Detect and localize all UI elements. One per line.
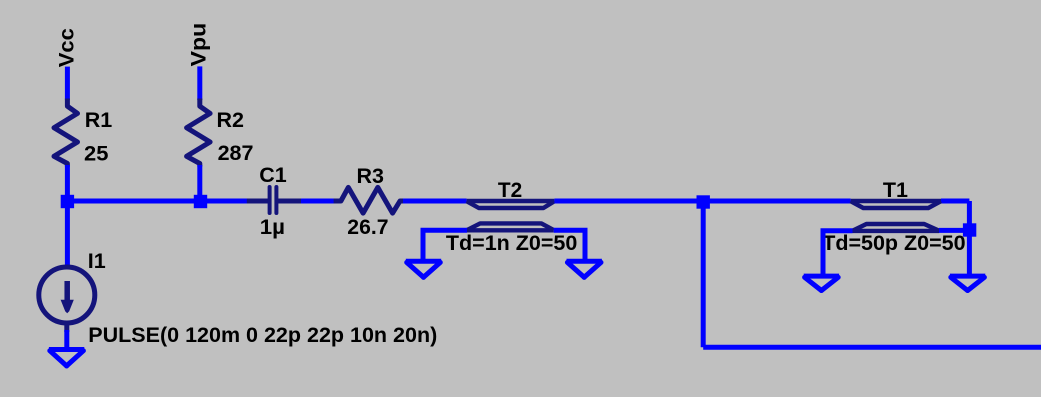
svg-text:T2: T2 xyxy=(498,178,522,202)
node junction J4 xyxy=(963,223,976,236)
svg-text:25: 25 xyxy=(84,141,108,165)
svg-text:R1: R1 xyxy=(85,108,113,132)
label R2 xyxy=(217,108,245,132)
value 287 xyxy=(218,141,254,165)
transmission line T1 xyxy=(851,201,941,231)
wire T1 lower right xyxy=(939,228,964,233)
ground T2 right xyxy=(567,261,602,277)
wire T2 lower right xyxy=(554,230,585,259)
value 25 xyxy=(84,141,108,165)
svg-text:26.7: 26.7 xyxy=(347,215,388,239)
wire T1 to corner xyxy=(941,199,969,204)
value PULSE xyxy=(88,323,437,347)
wire right vertical xyxy=(967,201,972,274)
svg-text:R2: R2 xyxy=(217,108,245,132)
value Td=50p Z0=50 xyxy=(822,231,965,255)
node junction J3 xyxy=(697,195,710,208)
wire T1 lower left xyxy=(823,231,853,274)
svg-text:C1: C1 xyxy=(259,163,287,187)
value 26.7 xyxy=(347,215,388,239)
value Td=1n Z0=50 xyxy=(446,231,577,255)
wire Vpu stub xyxy=(197,66,202,100)
wire R1 to node xyxy=(65,165,70,201)
current source I1 xyxy=(39,267,95,332)
wire I1 to ground xyxy=(64,330,69,350)
svg-text:PULSE(0 120m 0 22p 22p 10n 20n: PULSE(0 120m 0 22p 22p 10n 20n) xyxy=(88,323,437,347)
wire C1 to R3 xyxy=(301,199,334,204)
svg-text:1µ: 1µ xyxy=(260,215,285,239)
node junction J1 xyxy=(61,195,74,208)
label R1 xyxy=(85,108,113,132)
wire T2 lower left xyxy=(423,230,467,259)
svg-text:Td=50p Z0=50: Td=50p Z0=50 xyxy=(822,231,965,255)
svg-text:287: 287 xyxy=(218,141,254,165)
net label Vpu xyxy=(187,23,211,67)
svg-text:T1: T1 xyxy=(883,178,908,202)
wire main bus T2 to corner xyxy=(554,199,850,204)
wire Vcc stub xyxy=(65,67,70,100)
wire J3 down xyxy=(701,202,706,347)
wire node J1 down to I1 xyxy=(65,201,70,266)
svg-text:R3: R3 xyxy=(357,164,385,188)
resistor R2 xyxy=(187,99,211,167)
capacitor C1 xyxy=(247,187,301,213)
label T2 xyxy=(498,178,522,202)
svg-text:I1: I1 xyxy=(88,249,106,273)
svg-text:Vpu: Vpu xyxy=(187,23,211,67)
ground T1 right xyxy=(950,276,985,290)
ground T2 left xyxy=(406,261,441,277)
ground under I1 xyxy=(49,350,84,366)
label I1 xyxy=(88,249,106,273)
resistor R1 xyxy=(54,99,78,167)
transmission line T2 xyxy=(467,201,555,230)
label T1 xyxy=(883,178,908,202)
resistor R3 xyxy=(334,187,404,213)
ground T1 left xyxy=(804,276,839,290)
wire bottom out to right edge xyxy=(703,345,1041,350)
wire R3 to T2 xyxy=(403,199,467,204)
label R3 xyxy=(357,164,385,188)
svg-text:Td=1n Z0=50: Td=1n Z0=50 xyxy=(446,231,577,255)
label C1 xyxy=(259,163,287,187)
net label Vcc xyxy=(54,28,78,67)
svg-text:Vcc: Vcc xyxy=(54,28,78,67)
wire main bus left xyxy=(67,199,248,204)
node junction J2 xyxy=(194,195,207,208)
value 1u xyxy=(260,215,285,239)
wire R2 to node xyxy=(197,165,202,201)
